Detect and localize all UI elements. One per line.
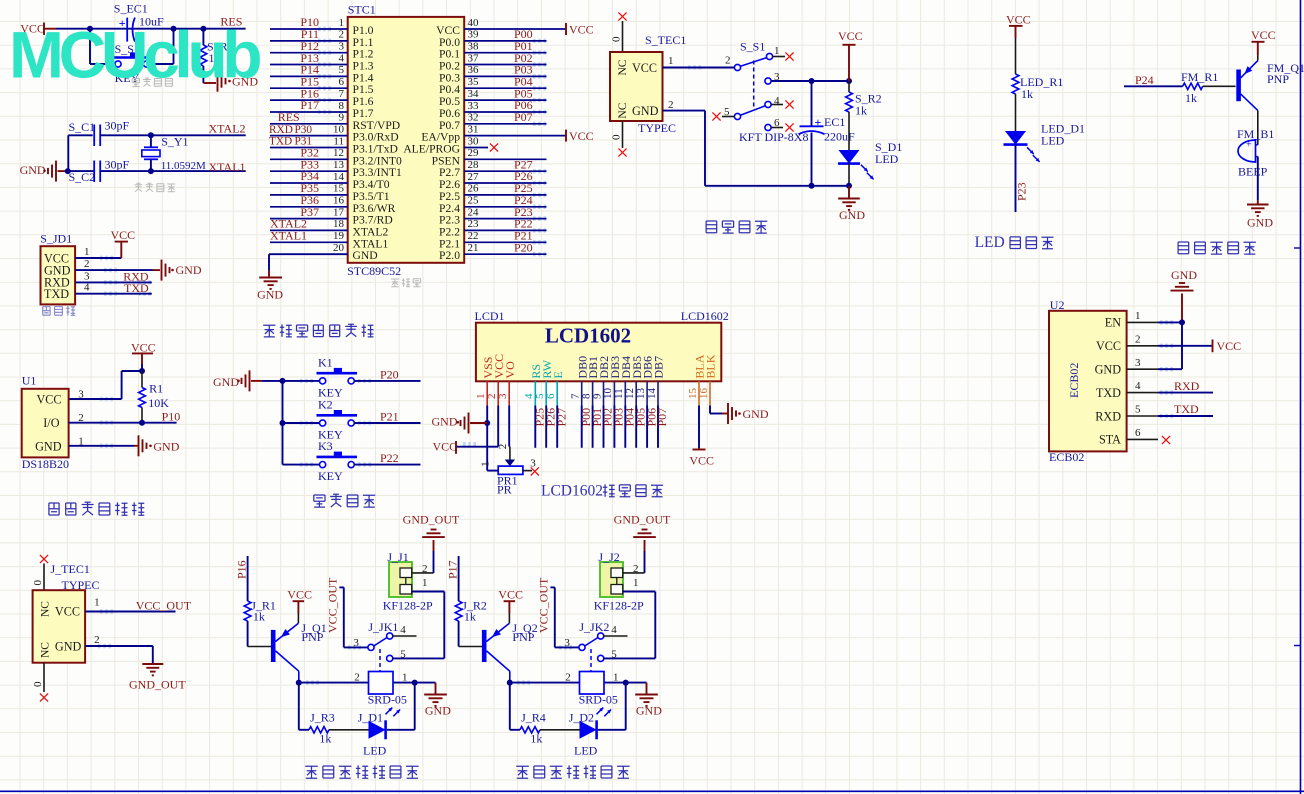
node EC1 bottom <box>809 183 815 189</box>
svg-text:GND: GND <box>1171 268 1197 282</box>
node keys column row2 <box>280 420 286 426</box>
svg-text:39: 39 <box>468 29 480 41</box>
svg-text:S_S1: S_S1 <box>740 40 765 54</box>
svg-text:1k: 1k <box>464 610 476 624</box>
pin 2 I/O (U1) <box>43 412 176 430</box>
wire K3 to P22 <box>354 464 420 466</box>
designator J_TEC1 <box>51 562 90 576</box>
svg-text:8: 8 <box>339 100 345 112</box>
pin 1 VCC (S_JD1) <box>44 246 90 265</box>
svg-text:J_JK1: J_JK1 <box>368 620 398 634</box>
part value DS18B20 <box>22 457 69 471</box>
part value TYPEC <box>638 121 676 135</box>
wire LCD pin5 <box>545 406 547 448</box>
power port VCC (U1) <box>131 341 156 365</box>
wire S_JD1 pin2 to GND <box>75 269 160 271</box>
svg-text:2: 2 <box>339 29 345 41</box>
pin 29 PSEN (right) <box>432 147 547 167</box>
pin 1 EN (U2) <box>1105 310 1158 330</box>
svg-text:1k: 1k <box>1185 91 1197 105</box>
svg-text:2: 2 <box>565 672 571 684</box>
pin 9 RST/VPD (left) <box>270 112 400 132</box>
sheet border bottom edge <box>0 790 1304 792</box>
svg-text:30pF: 30pF <box>105 119 130 133</box>
ground GND (reset) <box>203 71 258 92</box>
pin 25 P2.4 (right) <box>439 195 546 215</box>
push button S_S1 KEY <box>112 42 152 85</box>
pin 4 TXD (S_JD1) <box>44 282 90 301</box>
title 电源电路 <box>706 221 767 233</box>
net label RXD (U2) <box>1174 379 1200 393</box>
wire P24 to FM_R1 <box>1124 85 1183 87</box>
svg-text:LED: LED <box>574 744 598 758</box>
pin 18 XTAL2 (left) <box>270 218 388 238</box>
pin 12 P3.2/INT0 (left) <box>270 147 402 167</box>
transistor FM_Q1 PNP <box>1239 55 1304 145</box>
svg-text:RXD: RXD <box>1174 379 1200 393</box>
resistor J_R2 1k <box>455 599 487 647</box>
net label P12 <box>300 39 319 53</box>
svg-text:VCC: VCC <box>569 23 594 37</box>
pin 26 P2.5 (right) <box>439 183 546 203</box>
power port VCC (U2) <box>1213 339 1242 353</box>
net label P25 <box>514 181 533 195</box>
pin 3 GND (U2) <box>1095 357 1158 377</box>
connector S_JD1 body <box>41 246 76 304</box>
svg-text:FM_R1: FM_R1 <box>1181 70 1218 84</box>
wire buzzer to GND <box>1257 157 1259 201</box>
wire LCD pin16 BLK to GND <box>710 406 722 414</box>
pin 40 VCC (right) <box>436 17 566 37</box>
net label P23 <box>1015 182 1029 201</box>
wire LCD pin10 <box>613 406 615 448</box>
ground GND (U1) <box>134 435 180 456</box>
ground GND (relay) <box>635 683 662 718</box>
pin 7 DB0 (LCD) <box>570 356 590 406</box>
pin 12 DB5 (LCD) <box>624 356 644 406</box>
svg-text:LCD1: LCD1 <box>475 309 505 323</box>
pin 5 P1.4 (left) <box>270 64 374 84</box>
wire J_TEC1 pin1 VCC_OUT <box>85 611 175 613</box>
svg-text:VCC: VCC <box>36 392 61 406</box>
ground GND (U2 top) <box>1171 268 1198 322</box>
svg-text:PNP: PNP <box>1267 72 1289 86</box>
svg-text:NC: NC <box>617 102 629 118</box>
pin 23 P2.2 (right) <box>439 218 546 238</box>
svg-text:J_J2: J_J2 <box>598 550 619 564</box>
pin 6 E (LCD) <box>545 371 565 405</box>
svg-text:TXD: TXD <box>1096 386 1121 400</box>
svg-text:LED: LED <box>975 234 1005 251</box>
svg-text:LCD1602: LCD1602 <box>681 309 729 323</box>
svg-text:P27: P27 <box>554 408 568 427</box>
wire switch pin4 stub <box>393 635 417 637</box>
designator STC1 <box>348 3 376 17</box>
svg-text:VCC: VCC <box>1006 13 1031 27</box>
transistor J_Q2 PNP <box>484 614 538 683</box>
svg-text:P2.0: P2.0 <box>439 249 460 262</box>
wire XTAL1 bottom <box>68 170 245 172</box>
node collector-coil <box>507 680 513 686</box>
net label P24 <box>514 193 533 207</box>
node GND rail <box>846 183 852 189</box>
no-connect X (PR1 pin3) <box>531 467 539 475</box>
svg-text:P24: P24 <box>1135 73 1154 87</box>
ground GND_OUT (J_TEC1) <box>129 664 186 692</box>
svg-text:29: 29 <box>468 147 480 159</box>
svg-text:12: 12 <box>333 147 344 159</box>
net label P10 <box>300 15 319 29</box>
svg-text:4: 4 <box>1135 380 1141 392</box>
svg-text:P17: P17 <box>446 560 460 579</box>
relay switch J_JK2 <box>564 620 617 671</box>
svg-text:10K: 10K <box>148 396 169 410</box>
relay coil SRD-05 <box>354 672 407 707</box>
wire VCC to LED_R1 <box>1015 38 1017 74</box>
svg-text:1: 1 <box>668 55 674 67</box>
svg-text:19: 19 <box>333 230 345 242</box>
title 单片机最小系统 <box>263 324 373 337</box>
IC U1 DS18B20 body <box>22 389 69 458</box>
net label P24 <box>1135 73 1154 87</box>
pin NC labels (S_TEC1) <box>617 59 629 118</box>
svg-text:J_J1: J_J1 <box>387 550 408 564</box>
svg-text:30: 30 <box>468 135 480 147</box>
LED J_D1 <box>358 708 400 758</box>
relay coil SRD-05 <box>565 672 618 707</box>
power port VCC (LED circuit) <box>1006 13 1031 39</box>
svg-text:GND_OUT: GND_OUT <box>129 678 186 692</box>
svg-text:KF128-2P: KF128-2P <box>383 598 433 612</box>
pin 7 P1.6 (left) <box>270 88 374 108</box>
pin 16 P3.6/WR (left) <box>270 195 396 215</box>
wire J_TEC1 pin2 to GND_OUT <box>85 646 153 663</box>
svg-text:SRD-05: SRD-05 <box>579 693 618 707</box>
svg-text:26: 26 <box>468 183 480 195</box>
svg-text:1k: 1k <box>319 732 331 746</box>
pin 28 P2.7 (right) <box>439 159 546 179</box>
ground GND_OUT (J_J1) <box>403 512 460 551</box>
svg-text:+: + <box>1246 140 1252 151</box>
wire LCD pin8 <box>592 406 594 448</box>
svg-text:EC1: EC1 <box>824 115 845 129</box>
svg-text:NC: NC <box>40 642 52 658</box>
wire LED branch <box>510 683 626 730</box>
svg-text:RES: RES <box>278 110 300 124</box>
svg-text:40: 40 <box>468 17 480 29</box>
power port VCC (buzzer) <box>1251 28 1276 55</box>
wire LCD pin14 <box>657 406 659 448</box>
svg-text:TXD: TXD <box>269 136 292 148</box>
svg-text:GND: GND <box>636 704 662 718</box>
pin 1 wire J_J2 to loop <box>623 577 656 592</box>
net label P37 <box>300 205 319 219</box>
svg-text:E: E <box>551 371 565 378</box>
no-connect X (U2 STA) <box>1162 436 1170 444</box>
svg-text:P30: P30 <box>295 124 313 136</box>
title 继电器控制电路 <box>516 765 629 778</box>
svg-text:GND_OUT: GND_OUT <box>614 512 671 526</box>
pin 0 bottom (J_TEC1) <box>32 663 44 692</box>
svg-text:S_JD1: S_JD1 <box>40 232 72 246</box>
net label P35 <box>300 181 319 195</box>
pin 5 RW (LCD) <box>534 359 554 405</box>
power port VCC (reset circuit) <box>20 22 56 36</box>
svg-text:VCC: VCC <box>569 129 594 143</box>
svg-text:LCD1602: LCD1602 <box>541 483 603 500</box>
net label XTAL1 <box>209 160 246 174</box>
svg-text:VCC: VCC <box>632 61 657 75</box>
ground GND (keys) <box>213 370 262 391</box>
no-connect X on pin30 <box>490 143 498 151</box>
net label P15 <box>300 75 319 89</box>
connector J_TEC1 TYPEC body <box>33 590 86 663</box>
relay switch J_JK1 <box>353 620 406 671</box>
svg-text:P31: P31 <box>295 136 313 148</box>
pin 14 P3.4/T0 (left) <box>270 171 390 191</box>
wire coil row <box>299 682 436 684</box>
net label XTAL2 (pin18) <box>270 217 307 231</box>
node R1 bottom (P10) <box>139 420 145 426</box>
node coil right <box>412 680 418 686</box>
wire S_JD1 pin3 RXD <box>75 281 152 283</box>
svg-text:21: 21 <box>468 242 479 254</box>
svg-text:4: 4 <box>400 624 406 636</box>
pin 2 VCC (U2) <box>1096 333 1158 353</box>
pin 32 P0.7 (right) <box>439 112 546 132</box>
wire reset button branch <box>90 29 174 64</box>
net label RES (pin9) <box>278 110 300 124</box>
wire VCC to R1/U1 <box>69 364 142 399</box>
pin 11 P3.1/TxD (left) <box>270 135 398 155</box>
gray label 晶振电路 <box>135 183 176 192</box>
svg-text:1: 1 <box>1135 310 1141 322</box>
svg-text:LED: LED <box>363 744 387 758</box>
net label P02 <box>514 51 533 65</box>
net label VCC_OUT (J_TEC1) <box>136 599 192 613</box>
svg-text:GND: GND <box>743 407 769 421</box>
svg-text:1: 1 <box>774 45 780 57</box>
LED S_D1 <box>838 140 902 186</box>
gray label 按键复位 <box>132 78 172 87</box>
svg-text:13: 13 <box>333 159 345 171</box>
pin 10 DB3 (LCD) <box>602 356 622 406</box>
svg-text:6: 6 <box>339 76 345 88</box>
power port VCC (J_Q1) <box>287 587 312 613</box>
svg-text:J_D1: J_D1 <box>358 710 383 724</box>
power port VCC (J_Q2) <box>498 587 523 613</box>
node junction at S_R1 <box>200 26 206 32</box>
net label RES <box>220 15 242 29</box>
pin 2 GND (S_JD1) <box>44 258 90 277</box>
pin 39 P0.0 (right) <box>439 29 546 49</box>
title 继电器控制电路 <box>305 765 418 778</box>
svg-text:R1: R1 <box>149 382 163 396</box>
wire U2 VCC <box>1158 345 1212 347</box>
part name ECB02 (vertical) <box>1067 363 1081 398</box>
svg-text:GND: GND <box>1095 363 1122 377</box>
connector J_J1 KF128-2P body <box>383 550 433 612</box>
pin 6 P1.5 (left) <box>270 76 374 96</box>
pin 22 P2.1 (right) <box>439 230 546 250</box>
node VCC junction (U1) <box>139 368 145 374</box>
svg-text:TXD: TXD <box>44 287 69 301</box>
ground GND (relay) <box>424 683 451 718</box>
designator U2 <box>1050 298 1065 312</box>
pin 2 GND (J_TEC1) <box>55 634 100 653</box>
power port VCC (power circuit) <box>838 29 863 81</box>
pin 16 BLK (LCD) <box>698 354 718 405</box>
node keys column row1 <box>280 378 286 384</box>
net label P36 <box>300 193 319 207</box>
pin 8 DB1 (LCD) <box>580 356 600 406</box>
title LCD1602显示电路 <box>541 483 663 500</box>
svg-text:0: 0 <box>32 580 44 586</box>
part value LCD1602 (top right) <box>681 309 729 323</box>
svg-text:2: 2 <box>668 99 674 111</box>
svg-text:ECB02: ECB02 <box>1067 363 1081 398</box>
svg-text:3: 3 <box>339 41 345 53</box>
connector J_J2 KF128-2P body <box>594 550 644 612</box>
net label P05 <box>514 86 533 100</box>
svg-text:BLK: BLK <box>704 354 718 378</box>
no-connect X (J_TEC1 top) <box>40 555 48 563</box>
pin VCC name (S_TEC1) <box>632 61 657 75</box>
net label P03 <box>514 63 533 77</box>
svg-text:PR: PR <box>497 483 512 497</box>
net label RXD (S_JD1) <box>123 270 149 284</box>
svg-text:VCC: VCC <box>1251 28 1276 42</box>
svg-text:U1: U1 <box>22 374 37 388</box>
title LED灯电路 <box>975 234 1054 251</box>
power port VCC (S_JD1) <box>111 228 136 242</box>
wire switch pin5 to loop <box>393 592 445 659</box>
pin 30 ALE/PROG (right) <box>403 135 488 155</box>
title 蜂鸣器电路 <box>1178 242 1256 254</box>
svg-text:VO: VO <box>503 361 517 379</box>
part value ECB02 (below) <box>1049 450 1084 464</box>
wire U2 TXD <box>1158 392 1213 394</box>
pin 15 BLA (LCD) <box>687 354 707 405</box>
wire P17 down <box>458 556 460 601</box>
pin 4 P1.3 (left) <box>270 52 374 72</box>
resistor S_R1 1k <box>200 29 234 83</box>
pin 9 DB2 (LCD) <box>591 356 611 406</box>
svg-text:U2: U2 <box>1050 298 1065 312</box>
svg-text:VCC: VCC <box>1096 339 1121 353</box>
wire VCC_OUT to switch pin3 <box>550 587 579 647</box>
svg-text:VCC: VCC <box>55 605 80 619</box>
wire P16 down <box>247 556 249 601</box>
svg-text:LED: LED <box>1041 134 1065 148</box>
svg-text:KEY: KEY <box>318 469 343 483</box>
wire LCD pin4 <box>534 406 536 448</box>
svg-text:2: 2 <box>94 634 100 646</box>
node coil right <box>623 680 629 686</box>
svg-text:TYPEC: TYPEC <box>62 578 100 592</box>
svg-text:SRD-05: SRD-05 <box>368 693 407 707</box>
svg-text:27: 27 <box>468 171 480 183</box>
net label TXD (U2) <box>1174 402 1199 416</box>
wire LCD pin2 VCC <box>457 406 498 447</box>
net label P13 <box>300 51 319 65</box>
pin 0 top (J_TEC1) <box>32 564 44 591</box>
ground GND (S_JD1) <box>162 260 202 281</box>
svg-text:VCC_OUT: VCC_OUT <box>326 577 340 633</box>
svg-text:LED: LED <box>875 152 899 166</box>
net label XTAL1 (pin19) <box>270 229 307 243</box>
wire switch pin3 to VCC rail <box>771 80 849 82</box>
capacitor S_C1 30pF <box>69 119 130 147</box>
net label P26 <box>514 169 533 183</box>
svg-text:TXD: TXD <box>124 281 149 295</box>
LED J_D2 <box>569 708 611 758</box>
svg-text:STC1: STC1 <box>348 3 376 17</box>
net label P07 <box>514 110 533 124</box>
net label P17 <box>446 560 460 579</box>
pin 19 XTAL1 (left) <box>270 230 388 250</box>
pin 33 P0.6 (right) <box>439 100 546 120</box>
net label P04 (LCD) <box>623 408 637 427</box>
node EC1 top <box>809 78 815 84</box>
DIP switch S_S1 KFT DIP-8X8 <box>724 40 808 145</box>
svg-text:1: 1 <box>84 246 90 258</box>
svg-text:J_D2: J_D2 <box>569 710 594 724</box>
svg-text:K1: K1 <box>318 355 333 369</box>
svg-text:GND: GND <box>213 375 239 389</box>
svg-text:6: 6 <box>545 393 557 399</box>
pin NC labels (J_TEC1) <box>40 601 52 658</box>
part value STC89C52 <box>347 264 401 278</box>
node LCD VSS/GND <box>484 420 490 426</box>
svg-text:1k: 1k <box>1021 87 1033 101</box>
crystal S_Y1 11.0592M <box>142 134 206 172</box>
svg-text:GND: GND <box>432 414 458 428</box>
svg-text:GND_OUT: GND_OUT <box>403 512 460 526</box>
resistor FM_R1 1k <box>1181 70 1236 105</box>
pin 11 DB4 (LCD) <box>613 356 633 406</box>
pin 2 wire J_J2 to GND_OUT <box>623 551 645 575</box>
pin 4 TXD (U2) <box>1096 380 1158 400</box>
svg-text:1: 1 <box>633 577 639 589</box>
push button K1 KEY <box>317 355 358 399</box>
IC U STC1 STC89C52 body <box>348 17 465 263</box>
net label P16 <box>235 560 249 579</box>
net label P14 <box>300 63 319 77</box>
pin 1 GND (U1) <box>35 436 134 454</box>
net label P25 (LCD) <box>533 408 547 427</box>
pin 1 wire J_J1 to loop <box>412 577 445 592</box>
net label P01 <box>514 39 533 53</box>
net label P20 <box>380 367 399 381</box>
net label P23 <box>514 205 533 219</box>
wire pin20 GND <box>269 254 348 270</box>
svg-text:2: 2 <box>1135 333 1141 345</box>
ground GND_OUT (J_J2) <box>614 512 671 551</box>
wire bottom rail (power) <box>705 185 849 187</box>
IC LCD1 LCD1602 body <box>476 323 721 382</box>
svg-text:GND: GND <box>153 439 179 453</box>
svg-text:1k: 1k <box>530 732 542 746</box>
net label P00 (LCD) <box>579 408 593 427</box>
svg-text:38: 38 <box>468 41 480 53</box>
svg-text:3: 3 <box>353 637 359 649</box>
resistor J_R4 1k <box>520 710 580 745</box>
pin 14 DB7 (LCD) <box>646 356 666 406</box>
svg-text:36: 36 <box>468 64 480 76</box>
svg-text:TXD: TXD <box>1174 402 1199 416</box>
net label P07 (LCD) <box>655 408 669 427</box>
